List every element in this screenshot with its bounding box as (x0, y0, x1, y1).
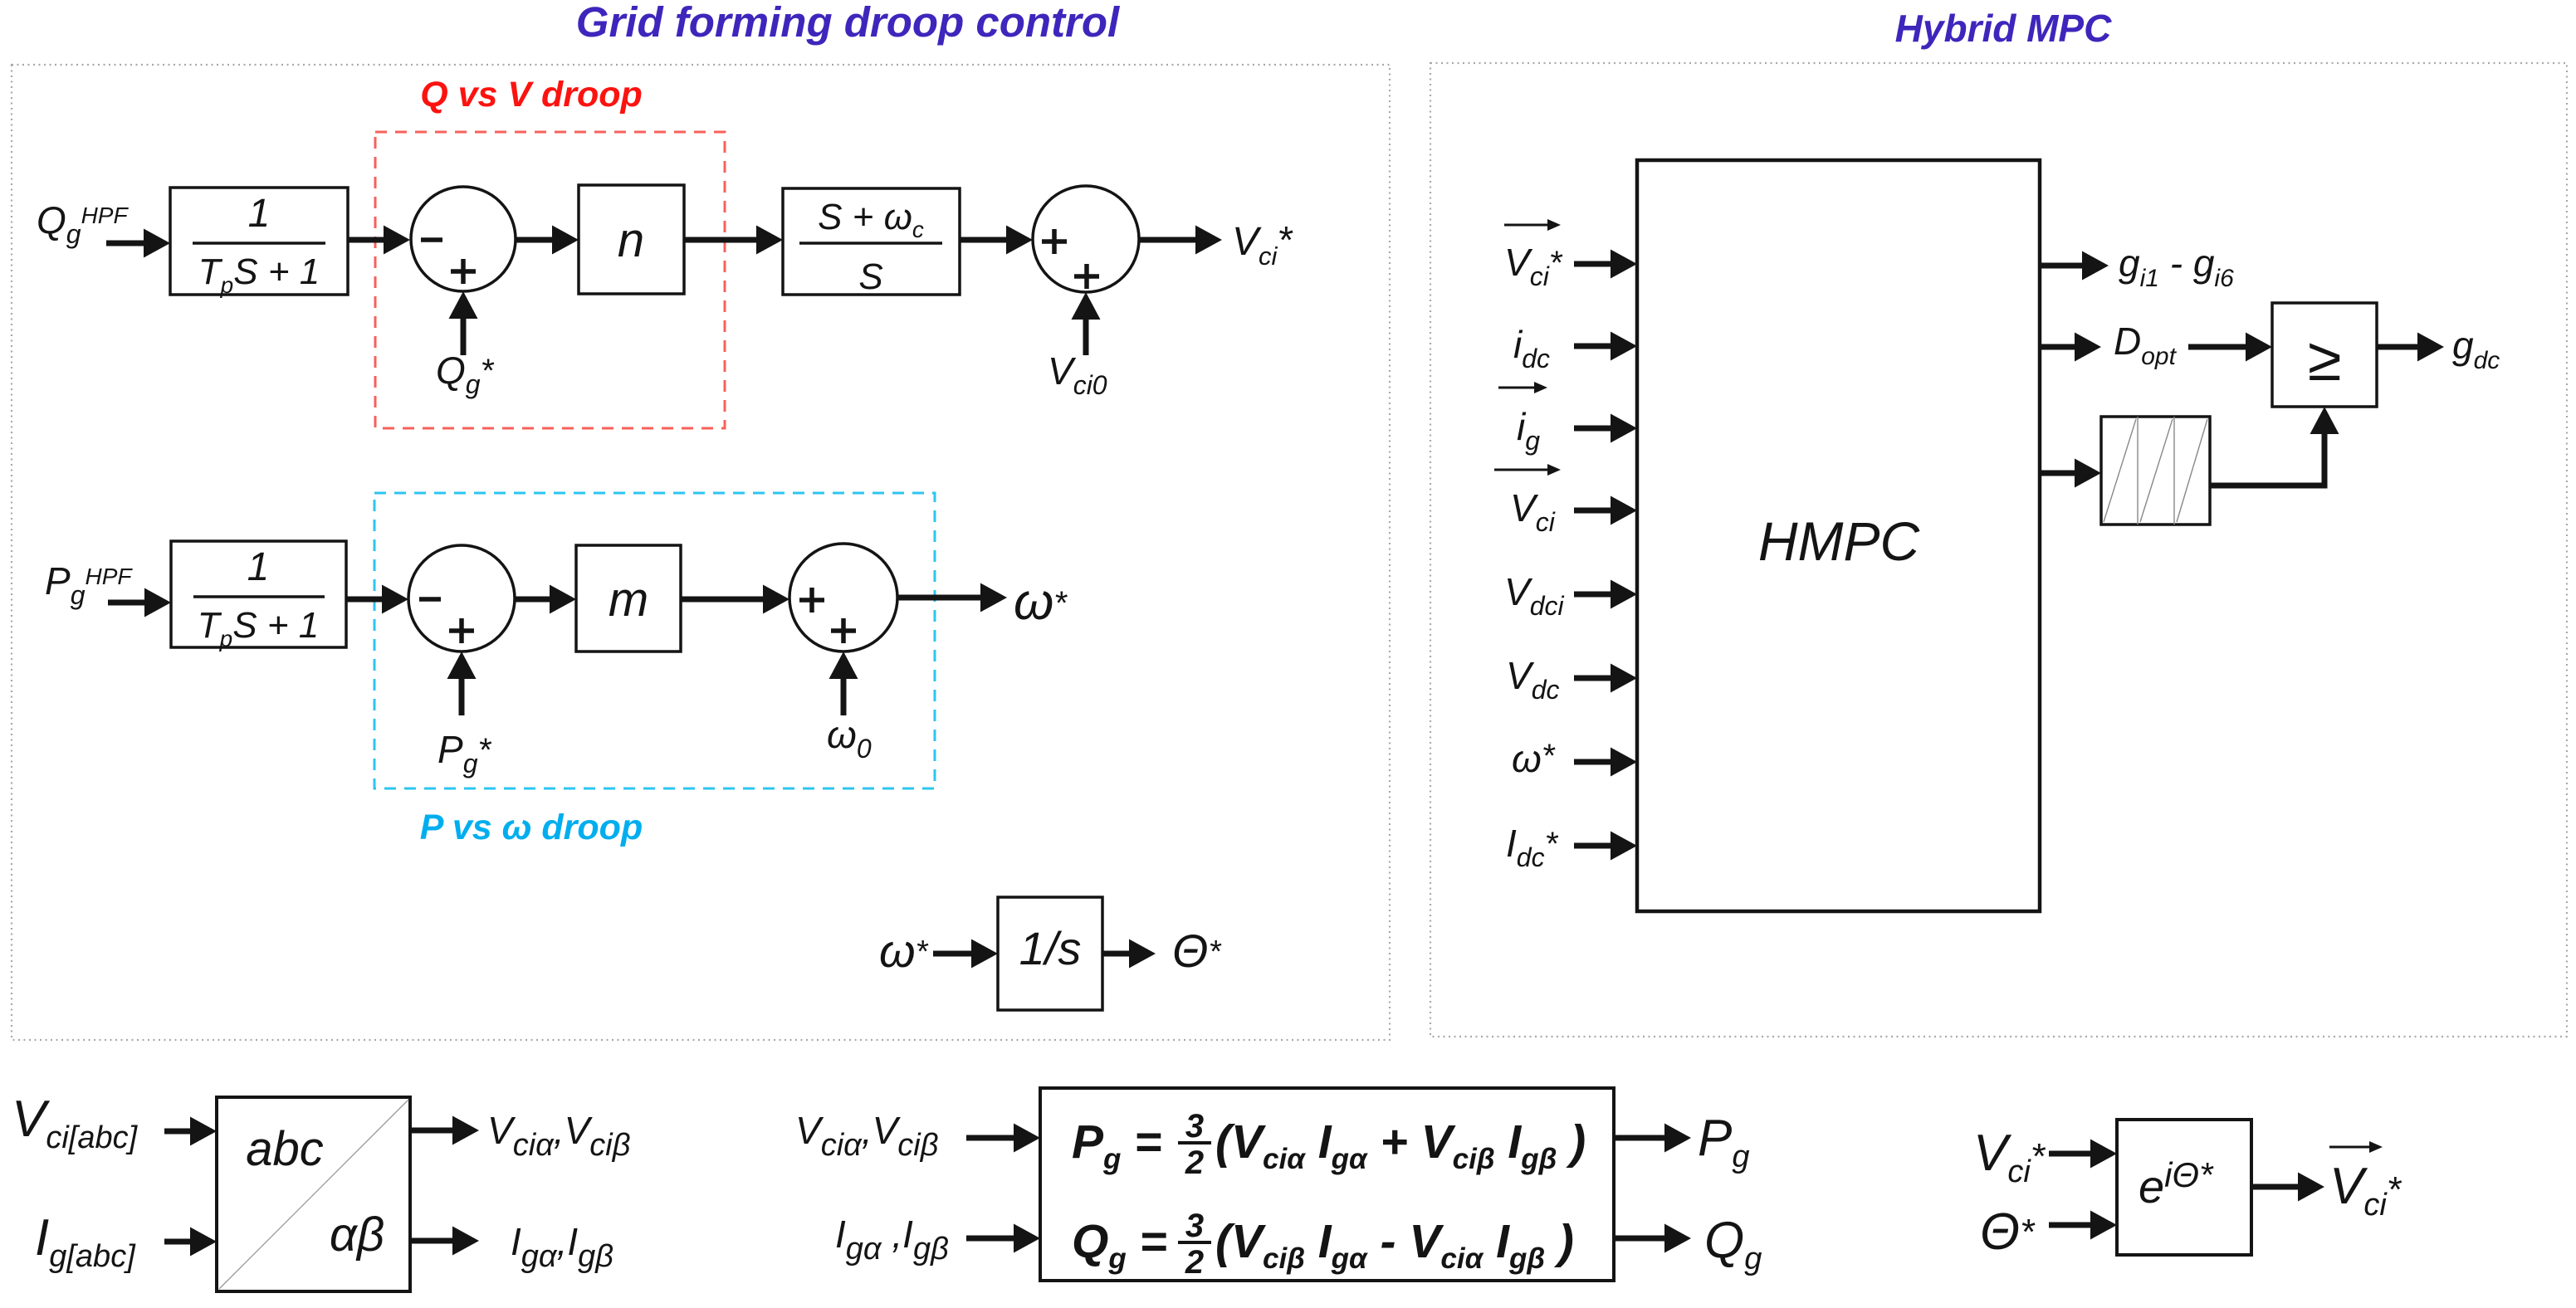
svg-text:3: 3 (1185, 1108, 1204, 1144)
svg-text:Q vs V droop: Q vs V droop (420, 75, 643, 115)
svg-text:Hybrid MPC: Hybrid MPC (1895, 7, 2112, 50)
svg-text:S: S (858, 256, 882, 297)
svg-text:abc: abc (246, 1122, 324, 1176)
svg-text:1/s: 1/s (1019, 922, 1082, 974)
svg-text:TpS + 1: TpS + 1 (198, 251, 320, 298)
svg-text:TpS + 1: TpS + 1 (198, 605, 319, 652)
svg-text:2: 2 (1185, 1144, 1204, 1181)
svg-text:m: m (609, 573, 648, 627)
svg-text:Grid forming droop control: Grid forming droop control (576, 0, 1121, 46)
svg-text:2: 2 (1185, 1244, 1204, 1281)
svg-text:n: n (618, 213, 644, 267)
svg-text:S + ωc: S + ωc (818, 197, 924, 242)
svg-text:3: 3 (1185, 1208, 1204, 1244)
svg-text:HMPC: HMPC (1758, 510, 1921, 572)
svg-text:αβ: αβ (330, 1208, 384, 1262)
svg-text:P vs ω droop: P vs ω droop (420, 808, 643, 847)
svg-text:≥: ≥ (2308, 325, 2342, 393)
svg-text:1: 1 (248, 192, 271, 236)
svg-text:Θ*: Θ* (1980, 1203, 2036, 1261)
svg-text:ω*: ω* (1512, 737, 1556, 780)
svg-text:1: 1 (247, 545, 270, 589)
